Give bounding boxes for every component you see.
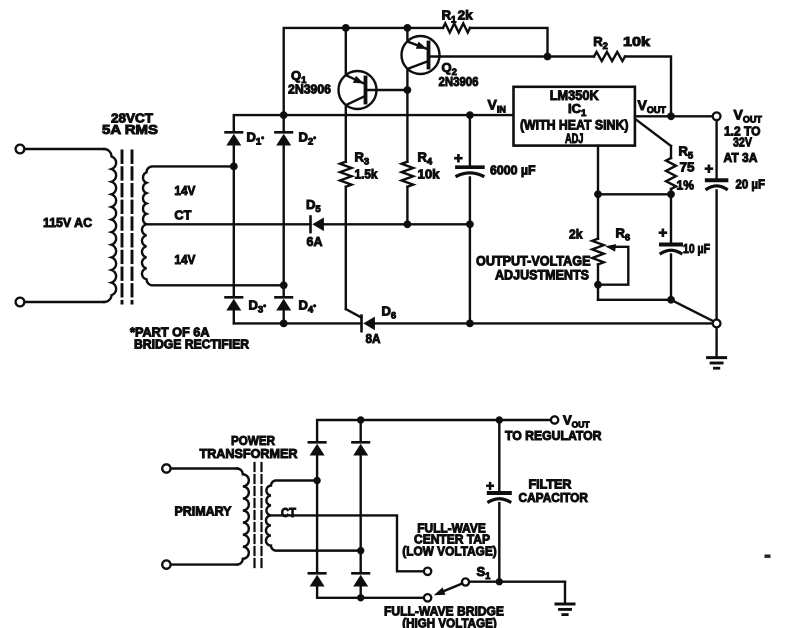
svg-text:D5: D5 [306, 197, 321, 215]
svg-text:R2: R2 [593, 34, 608, 52]
svg-text:1.5k: 1.5k [355, 167, 379, 182]
svg-text:2k: 2k [458, 8, 474, 23]
svg-text:8A: 8A [366, 331, 382, 346]
svg-text:VIN: VIN [488, 97, 506, 115]
svg-text:2N3906: 2N3906 [439, 74, 479, 89]
svg-text:(LOW VOLTAGE): (LOW VOLTAGE) [402, 544, 497, 559]
svg-text:AT 3A: AT 3A [724, 150, 759, 165]
svg-text:10k: 10k [418, 167, 441, 182]
svg-text:6000 µF: 6000 µF [490, 163, 536, 178]
svg-text:D2•: D2• [299, 130, 317, 148]
svg-text:+: + [659, 225, 668, 242]
svg-text:CT: CT [281, 505, 296, 520]
svg-text:20 µF: 20 µF [736, 177, 766, 192]
svg-text:115V AC: 115V AC [43, 215, 93, 230]
svg-text:2k: 2k [569, 227, 583, 242]
svg-text:R3: R3 [355, 150, 370, 168]
svg-text:R6: R6 [616, 226, 631, 244]
svg-text:BRIDGE RECTIFIER: BRIDGE RECTIFIER [134, 338, 249, 352]
svg-text:TO REGULATOR: TO REGULATOR [505, 428, 602, 443]
svg-text:+: + [486, 477, 494, 493]
svg-text:10k: 10k [623, 34, 651, 49]
svg-text:+: + [705, 161, 714, 178]
svg-text:D3•: D3• [249, 298, 267, 316]
svg-text:TRANSFORMER: TRANSFORMER [200, 446, 299, 461]
svg-text:(HIGH VOLTAGE): (HIGH VOLTAGE) [402, 616, 497, 628]
svg-text:PRIMARY: PRIMARY [175, 504, 232, 519]
svg-text:2N3906: 2N3906 [288, 82, 331, 97]
svg-text:1%: 1% [677, 178, 695, 193]
svg-text:D6: D6 [382, 304, 397, 322]
svg-text:+: + [454, 150, 463, 167]
svg-text:ADJ: ADJ [565, 131, 584, 146]
svg-text:S1: S1 [477, 564, 492, 582]
svg-text:D1•: D1• [247, 130, 265, 148]
svg-text:CT: CT [174, 208, 191, 223]
svg-text:OUTPUT-VOLTAGE: OUTPUT-VOLTAGE [476, 254, 591, 269]
svg-text:6A: 6A [307, 234, 324, 249]
svg-text:VOUT: VOUT [734, 107, 763, 125]
svg-text:75: 75 [680, 160, 695, 175]
svg-text:5A RMS: 5A RMS [102, 122, 158, 137]
svg-text:R1: R1 [442, 8, 457, 26]
svg-text:14V: 14V [174, 252, 195, 267]
svg-text:D4•: D4• [299, 298, 317, 316]
svg-text:10 µF: 10 µF [683, 241, 710, 256]
svg-text:ADJUSTMENTS: ADJUSTMENTS [495, 267, 589, 282]
svg-text:R4: R4 [418, 150, 433, 168]
svg-text:VOUT: VOUT [638, 97, 667, 115]
svg-text:32V: 32V [733, 135, 752, 150]
svg-text:14V: 14V [174, 183, 195, 198]
svg-text:CAPACITOR: CAPACITOR [519, 490, 589, 505]
